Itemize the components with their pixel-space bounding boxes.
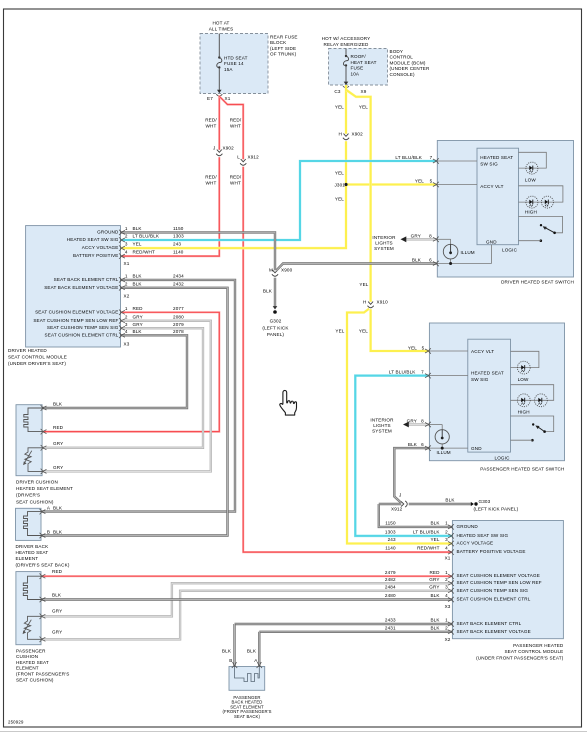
svg-text:GRY: GRY <box>411 234 421 239</box>
svg-text:2: 2 <box>125 281 128 286</box>
svg-text:CONSOLE): CONSOLE) <box>390 72 416 77</box>
svg-text:OF TRUNK): OF TRUNK) <box>270 52 297 57</box>
svg-text:RED/WHT: RED/WHT <box>417 546 440 551</box>
svg-text:X2: X2 <box>124 293 130 298</box>
svg-text:HEATED SEAT: HEATED SEAT <box>480 155 513 160</box>
svg-text:HOT W/ ACCESSORY: HOT W/ ACCESSORY <box>322 36 371 41</box>
svg-text:SEAT BACK ELEMENT VOLTAGE: SEAT BACK ELEMENT VOLTAGE <box>44 285 118 290</box>
svg-text:HIGH: HIGH <box>518 410 530 415</box>
svg-text:DRIVER HEATED SEAT SWITCH: DRIVER HEATED SEAT SWITCH <box>501 280 574 285</box>
svg-text:HEATED SEAT: HEATED SEAT <box>16 660 49 665</box>
svg-text:2431: 2431 <box>385 625 396 630</box>
svg-text:HEATED SEAT: HEATED SEAT <box>16 550 49 555</box>
svg-text:1140: 1140 <box>385 546 396 551</box>
svg-text:WHT: WHT <box>206 124 217 129</box>
svg-text:DRIVER BACK: DRIVER BACK <box>16 544 50 549</box>
svg-text:X910: X910 <box>377 300 389 305</box>
svg-text:2077: 2077 <box>173 306 184 311</box>
svg-text:X902: X902 <box>223 146 235 151</box>
svg-text:(UNDER CENTER: (UNDER CENTER <box>390 66 431 71</box>
svg-text:250929: 250929 <box>8 720 24 725</box>
svg-text:G303: G303 <box>479 499 491 504</box>
svg-text:BATTERY POSITIVE VOLTAGE: BATTERY POSITIVE VOLTAGE <box>457 549 526 554</box>
svg-text:BATTERY POSITIVE: BATTERY POSITIVE <box>73 253 119 258</box>
svg-text:DRIVER HEATED: DRIVER HEATED <box>8 348 47 353</box>
svg-text:2: 2 <box>125 314 128 319</box>
svg-text:RED: RED <box>429 570 440 575</box>
svg-text:X3: X3 <box>124 341 130 346</box>
svg-text:2480: 2480 <box>385 593 396 598</box>
svg-text:X2: X2 <box>445 637 451 642</box>
svg-text:SEAT BACK ELEMENT CTRL: SEAT BACK ELEMENT CTRL <box>54 277 119 282</box>
svg-text:1: 1 <box>125 226 128 231</box>
svg-text:SEAT BACK): SEAT BACK) <box>234 714 261 719</box>
svg-text:CUSHION: CUSHION <box>16 654 38 659</box>
svg-text:YEL: YEL <box>359 329 368 334</box>
svg-text:GRY: GRY <box>53 441 63 446</box>
svg-text:LOGIC: LOGIC <box>502 247 518 252</box>
svg-text:GRY: GRY <box>133 314 143 319</box>
svg-text:YEL: YEL <box>359 105 368 110</box>
svg-text:YEL: YEL <box>133 242 142 247</box>
svg-text:5: 5 <box>422 345 425 350</box>
svg-text:BLK: BLK <box>263 289 273 294</box>
svg-text:YEL: YEL <box>359 282 368 287</box>
svg-text:BLK: BLK <box>412 258 422 263</box>
svg-text:7: 7 <box>430 155 433 160</box>
svg-text:J301: J301 <box>334 183 345 188</box>
svg-text:YEL: YEL <box>335 105 344 110</box>
svg-text:H: H <box>363 300 366 305</box>
svg-text:WHT: WHT <box>230 181 241 186</box>
svg-text:X1: X1 <box>225 96 231 101</box>
svg-text:(UNDER DRIVER'S SEAT): (UNDER DRIVER'S SEAT) <box>8 361 66 366</box>
svg-text:BLK: BLK <box>430 618 440 623</box>
svg-text:ACCY VOLTAGE: ACCY VOLTAGE <box>82 245 119 250</box>
svg-text:YEL: YEL <box>335 329 344 334</box>
svg-text:BLK: BLK <box>53 401 63 406</box>
svg-text:RED/: RED/ <box>230 175 242 180</box>
svg-text:HEAT SEAT: HEAT SEAT <box>351 60 377 65</box>
svg-text:8: 8 <box>421 419 424 424</box>
svg-text:1140: 1140 <box>173 250 184 255</box>
svg-text:YEL: YEL <box>415 179 424 184</box>
svg-text:YEL: YEL <box>335 197 344 202</box>
svg-text:RED/WHT: RED/WHT <box>133 250 156 255</box>
svg-text:HEATED SEAT: HEATED SEAT <box>471 370 504 375</box>
svg-text:SEAT CUSHION ELEMENT VOLTAGE: SEAT CUSHION ELEMENT VOLTAGE <box>35 309 118 314</box>
svg-text:3: 3 <box>445 537 448 542</box>
svg-text:BLK: BLK <box>445 497 455 502</box>
svg-text:SEAT CUSHION ELEMENT VOLTAGE: SEAT CUSHION ELEMENT VOLTAGE <box>457 573 540 578</box>
svg-text:3: 3 <box>445 584 448 589</box>
svg-text:2432: 2432 <box>173 281 184 286</box>
svg-text:(DRIVER'S: (DRIVER'S <box>16 493 40 498</box>
svg-text:ACCY VLT: ACCY VLT <box>480 184 503 189</box>
svg-text:SEAT CUSHION ELEMENT CTRL: SEAT CUSHION ELEMENT CTRL <box>457 597 531 602</box>
svg-text:HEATED SEAT SW SIG: HEATED SEAT SW SIG <box>457 533 509 538</box>
svg-text:LOW: LOW <box>518 377 529 382</box>
svg-text:6: 6 <box>429 258 432 263</box>
svg-text:SYSTEM: SYSTEM <box>374 246 394 251</box>
svg-text:SEAT CUSHION TEMP SEN SIG: SEAT CUSHION TEMP SEN SIG <box>457 588 529 593</box>
svg-text:SW SIG: SW SIG <box>480 162 498 167</box>
svg-text:HEATED SEAT ELEMENT: HEATED SEAT ELEMENT <box>16 486 73 491</box>
svg-text:GRY: GRY <box>133 322 143 327</box>
svg-text:BLK: BLK <box>53 506 63 511</box>
svg-text:X9: X9 <box>361 89 367 94</box>
svg-text:GRY: GRY <box>52 609 62 614</box>
svg-text:YEL: YEL <box>408 345 417 350</box>
svg-text:SYSTEM: SYSTEM <box>372 428 392 433</box>
svg-text:J: J <box>399 493 401 498</box>
svg-text:2434: 2434 <box>173 274 184 279</box>
svg-text:BLK: BLK <box>408 442 418 447</box>
svg-text:(LEFT KICK PANEL): (LEFT KICK PANEL) <box>474 506 519 511</box>
svg-text:X912: X912 <box>248 155 260 160</box>
svg-text:LIGHTS: LIGHTS <box>373 423 391 428</box>
svg-text:BLK: BLK <box>247 649 257 654</box>
svg-text:2: 2 <box>445 577 448 582</box>
svg-text:RED/: RED/ <box>205 118 217 123</box>
svg-text:HTD SEAT: HTD SEAT <box>224 56 248 61</box>
svg-text:1303: 1303 <box>385 530 396 535</box>
svg-text:GND: GND <box>471 446 482 451</box>
svg-text:BODY: BODY <box>390 49 404 54</box>
svg-text:LT BLU/BLK: LT BLU/BLK <box>395 155 422 160</box>
svg-text:L: L <box>237 155 240 160</box>
svg-text:1: 1 <box>445 570 448 575</box>
svg-text:HEATED SEAT SW SIG: HEATED SEAT SW SIG <box>67 237 119 242</box>
svg-text:SEAT CUSHION ELEMENT CTRL: SEAT CUSHION ELEMENT CTRL <box>45 332 119 337</box>
svg-text:BLK: BLK <box>133 281 143 286</box>
svg-text:GRY: GRY <box>429 584 439 589</box>
svg-text:243: 243 <box>173 242 181 247</box>
svg-text:2: 2 <box>445 530 448 535</box>
svg-text:SEAT BACK ELEMENT VOLTAGE: SEAT BACK ELEMENT VOLTAGE <box>457 629 531 634</box>
svg-text:E7: E7 <box>207 96 213 101</box>
svg-text:LOW: LOW <box>525 178 536 183</box>
svg-text:2: 2 <box>125 234 128 239</box>
svg-text:4: 4 <box>125 250 128 255</box>
svg-text:1303: 1303 <box>173 234 184 239</box>
svg-text:5: 5 <box>430 179 433 184</box>
svg-text:SEAT CONTROL MODULE: SEAT CONTROL MODULE <box>504 649 563 654</box>
svg-text:PANEL): PANEL) <box>267 332 284 337</box>
svg-text:2484: 2484 <box>385 584 396 589</box>
svg-text:CONTROL: CONTROL <box>390 55 414 60</box>
svg-text:M: M <box>269 268 273 273</box>
svg-text:SEAT CUSHION): SEAT CUSHION) <box>16 499 54 504</box>
svg-text:HIGH: HIGH <box>525 210 537 215</box>
svg-text:4: 4 <box>125 329 128 334</box>
svg-text:ELEMENT: ELEMENT <box>16 666 39 671</box>
svg-text:BLK: BLK <box>430 593 440 598</box>
svg-text:H: H <box>339 132 342 137</box>
svg-text:PASSENGER HEATED: PASSENGER HEATED <box>513 643 564 648</box>
svg-text:1150: 1150 <box>385 521 396 526</box>
svg-text:RED: RED <box>52 569 63 574</box>
svg-text:10A: 10A <box>351 71 360 76</box>
svg-text:WHT: WHT <box>206 181 217 186</box>
svg-text:(LEFT KICK: (LEFT KICK <box>262 325 289 330</box>
svg-text:BLOCK: BLOCK <box>270 40 287 45</box>
svg-text:LT BLU/BLK: LT BLU/BLK <box>133 234 160 239</box>
svg-text:SEAT CONTROL MODULE: SEAT CONTROL MODULE <box>8 355 67 360</box>
svg-text:(LEFT SIDE: (LEFT SIDE <box>270 46 296 51</box>
svg-text:X1: X1 <box>445 555 451 560</box>
svg-text:6: 6 <box>421 442 424 447</box>
svg-text:GRY: GRY <box>53 465 63 470</box>
svg-text:RED: RED <box>133 306 144 311</box>
svg-text:ACCY VLT: ACCY VLT <box>471 349 494 354</box>
svg-text:LT BLU/BLK: LT BLU/BLK <box>413 530 440 535</box>
svg-text:4: 4 <box>445 593 448 598</box>
svg-text:ILLUM: ILLUM <box>437 450 451 455</box>
svg-text:BLK: BLK <box>52 592 62 597</box>
svg-text:(UNDER FRONT PASSENGER'S SEAT): (UNDER FRONT PASSENGER'S SEAT) <box>476 655 564 660</box>
svg-text:2482: 2482 <box>385 577 396 582</box>
svg-text:243: 243 <box>388 537 396 542</box>
svg-text:LIGHTS: LIGHTS <box>375 240 393 245</box>
svg-text:1: 1 <box>445 618 448 623</box>
svg-text:B: B <box>47 530 50 535</box>
svg-text:GROUND: GROUND <box>457 524 479 529</box>
svg-text:G302: G302 <box>270 319 282 324</box>
svg-text:RED/: RED/ <box>230 118 242 123</box>
svg-text:1: 1 <box>125 306 128 311</box>
svg-text:GND: GND <box>486 239 497 244</box>
svg-text:ACCY VOLTAGE: ACCY VOLTAGE <box>457 541 494 546</box>
svg-text:ROOF/: ROOF/ <box>351 54 367 59</box>
svg-text:SEAT CUSHION TEMP SEN SIG: SEAT CUSHION TEMP SEN SIG <box>47 325 119 330</box>
svg-text:SW SIG: SW SIG <box>471 377 489 382</box>
svg-text:ELEMENT: ELEMENT <box>16 556 39 561</box>
svg-text:FUSE: FUSE <box>351 66 364 71</box>
svg-text:7: 7 <box>421 370 424 375</box>
svg-text:ILLUM: ILLUM <box>461 250 475 255</box>
svg-text:INTERIOR: INTERIOR <box>372 235 396 240</box>
svg-text:LT BLU/BLK: LT BLU/BLK <box>389 370 416 375</box>
svg-text:3: 3 <box>125 322 128 327</box>
svg-text:YEL: YEL <box>430 537 439 542</box>
svg-text:PASSENGER: PASSENGER <box>16 648 46 653</box>
svg-text:(FRONT PASSENGER'S: (FRONT PASSENGER'S <box>16 672 69 677</box>
svg-text:DRIVER CUSHION: DRIVER CUSHION <box>16 480 58 485</box>
svg-text:BLK: BLK <box>133 226 143 231</box>
svg-text:X3: X3 <box>445 604 451 609</box>
svg-text:BLK: BLK <box>430 521 440 526</box>
svg-text:X912: X912 <box>391 507 403 512</box>
svg-text:GRY: GRY <box>429 577 439 582</box>
svg-text:YEL: YEL <box>335 171 344 176</box>
svg-text:MODULE (BCM): MODULE (BCM) <box>390 60 426 65</box>
svg-text:2078: 2078 <box>173 329 184 334</box>
svg-text:WHT: WHT <box>230 124 241 129</box>
svg-text:SEAT BACK ELEMENT CTRL: SEAT BACK ELEMENT CTRL <box>457 621 522 626</box>
svg-text:HOT AT: HOT AT <box>212 21 229 26</box>
svg-text:RELAY ENERGIZED: RELAY ENERGIZED <box>324 42 369 47</box>
svg-text:BLK: BLK <box>133 329 143 334</box>
svg-text:SEAT CUSHION): SEAT CUSHION) <box>16 677 54 682</box>
svg-text:2079: 2079 <box>173 322 184 327</box>
svg-text:RED/: RED/ <box>205 175 217 180</box>
svg-text:X900: X900 <box>281 268 293 273</box>
svg-text:B: B <box>229 658 232 663</box>
svg-text:ALL TIMES: ALL TIMES <box>209 27 234 32</box>
svg-text:SEAT CUSHION TEMP SEN LOW REF: SEAT CUSHION TEMP SEN LOW REF <box>457 580 542 585</box>
svg-text:2080: 2080 <box>173 314 184 319</box>
svg-text:BLK: BLK <box>53 530 63 535</box>
svg-text:C3: C3 <box>334 89 340 94</box>
svg-text:J: J <box>213 146 215 151</box>
svg-text:X1: X1 <box>124 261 130 266</box>
svg-text:FUSE 14: FUSE 14 <box>224 61 244 66</box>
svg-text:BLK: BLK <box>133 274 143 279</box>
svg-text:RED: RED <box>53 425 64 430</box>
svg-text:BLK: BLK <box>430 625 440 630</box>
svg-text:GRY: GRY <box>52 630 62 635</box>
svg-text:3: 3 <box>125 242 128 247</box>
svg-text:(DRIVER'S SEAT BACK): (DRIVER'S SEAT BACK) <box>16 562 70 567</box>
svg-text:GROUND: GROUND <box>97 229 119 234</box>
svg-text:1: 1 <box>125 274 128 279</box>
svg-text:INTERIOR: INTERIOR <box>370 417 394 422</box>
svg-text:2479: 2479 <box>385 570 396 575</box>
svg-text:REAR FUSE: REAR FUSE <box>270 35 298 40</box>
svg-text:SEAT CUSHION TEMP SEN LOW REF: SEAT CUSHION TEMP SEN LOW REF <box>33 318 118 323</box>
svg-text:2: 2 <box>445 625 448 630</box>
svg-text:X902: X902 <box>352 132 364 137</box>
svg-text:15A: 15A <box>224 67 233 72</box>
svg-text:LOGIC: LOGIC <box>495 455 511 460</box>
svg-text:PASSENGER HEATED SEAT SWITCH: PASSENGER HEATED SEAT SWITCH <box>480 466 564 471</box>
svg-text:8: 8 <box>429 234 432 239</box>
svg-text:1150: 1150 <box>173 226 184 231</box>
svg-text:1: 1 <box>445 521 448 526</box>
svg-text:2433: 2433 <box>385 618 396 623</box>
svg-text:4: 4 <box>445 546 448 551</box>
svg-text:BLK: BLK <box>222 649 232 654</box>
